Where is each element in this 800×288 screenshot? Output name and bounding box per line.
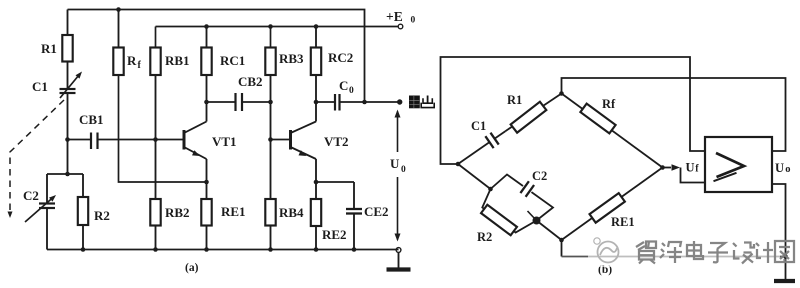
wire: VT1 emitter: [206, 159, 208, 199]
junction: VT2 emitter node: [314, 180, 319, 185]
wire: VT2 collector: [315, 102, 317, 122]
wire: VT2 emitter: [315, 159, 317, 199]
watermark char 泽: [660, 242, 682, 263]
svg-text:C2: C2: [23, 188, 39, 203]
wire: bridge left node to op-amp input loop: [441, 57, 706, 164]
wire: VT1 collector: [206, 102, 208, 122]
resistor RB1: [155, 27, 157, 48]
node: bridge bottom node: [559, 238, 564, 243]
junction: RB2 to ground bus: [153, 247, 158, 252]
svg-text:RE2: RE2: [322, 227, 347, 242]
wire: base line VT2: [271, 139, 291, 141]
transistor VT1: [183, 130, 186, 150]
capacitor C0: [316, 101, 335, 103]
ground symbol (b): [785, 257, 787, 280]
svg-text:RB4: RB4: [279, 205, 304, 220]
junction: RB4 to ground bus: [268, 247, 273, 252]
measurement arrow U0 (a): [397, 112, 399, 153]
junction: base node VT1: [153, 137, 158, 142]
svg-text:RB1: RB1: [165, 53, 190, 68]
junction: Rf tap on top bus: [116, 7, 121, 12]
capacitor CE2: [316, 181, 354, 183]
junction: CE2 to ground bus: [352, 247, 357, 252]
svg-text:R1: R1: [507, 93, 522, 107]
resistor RC2: [315, 27, 317, 48]
junction: tank lower-right (variable tap): [528, 211, 537, 220]
svg-text:RB3: RB3: [279, 51, 304, 66]
resistor R1 (b): [505, 94, 561, 132]
wire: output feedback top bus (a): [68, 10, 365, 103]
svg-text:0: 0: [401, 165, 406, 175]
svg-text:RC2: RC2: [328, 50, 353, 65]
junction: base node VT2: [268, 137, 273, 142]
resistor R2 (b): [481, 205, 517, 236]
junction: feedback bus joins output line: [362, 100, 367, 105]
op-amp U1 (amplifier box): [705, 137, 772, 192]
svg-text:CE2: CE2: [364, 204, 389, 219]
junction: VT1 collector node: [204, 100, 209, 105]
junction: tank upper-left: [488, 187, 493, 192]
resistor Rf (b): [562, 94, 663, 168]
svg-text:U: U: [390, 156, 400, 171]
node: bridge top node: [559, 91, 564, 96]
svg-text:CB2: CB2: [238, 74, 263, 89]
svg-text:R1: R1: [41, 41, 57, 56]
svg-text:RC1: RC1: [220, 53, 245, 68]
junction: base coupling tap: [65, 137, 70, 142]
resistor RE1: [201, 199, 211, 226]
watermark char 贸: [636, 242, 656, 264]
svg-text:0: 0: [411, 16, 416, 26]
watermark char 计: [756, 242, 773, 263]
resistor RC1: [206, 27, 208, 48]
resistor RB3: [270, 27, 272, 48]
svg-text:R2: R2: [477, 230, 492, 244]
svg-text:o: o: [785, 164, 790, 175]
svg-text:(a): (a): [185, 262, 199, 274]
svg-text:R2: R2: [94, 208, 110, 223]
resistor RB2: [155, 140, 157, 200]
wire: RB3 to VT2 base node: [270, 102, 272, 140]
wire: op-amp output to bridge top node: [562, 78, 786, 151]
terminal: +E0 supply: [398, 24, 403, 29]
wire: base line VT1: [98, 139, 185, 141]
junction: VT2 collector node: [314, 100, 319, 105]
svg-text:C: C: [339, 78, 348, 93]
svg-text:RE1: RE1: [221, 204, 246, 219]
ground symbol (a): [396, 248, 401, 253]
terminal: output (a): [397, 99, 402, 104]
wire: op-amp output down to ground: [772, 184, 786, 257]
junction: Rf joins emitter node: [204, 180, 209, 185]
watermark char 子: [708, 243, 728, 262]
node: bridge right node: [660, 165, 665, 170]
resistor RE1 (b): [562, 168, 663, 241]
svg-text:RE1: RE1: [611, 215, 635, 229]
junction: RB3 on supply rail: [268, 24, 273, 29]
svg-text:f: f: [138, 60, 142, 71]
resistor R1: [67, 10, 69, 36]
gang line (dashed) linking C1/C2: [10, 100, 64, 212]
wire: bridge bottom return: [561, 240, 563, 257]
wire: tank to bottom node: [537, 221, 562, 241]
svg-text:C1: C1: [32, 79, 48, 94]
transistor VT2: [289, 130, 292, 150]
svg-text:C1: C1: [471, 119, 486, 133]
watermark char 圈: [775, 241, 794, 262]
watermark backdrop: [588, 236, 780, 267]
junction: R2 to ground bus: [81, 247, 86, 252]
watermark logo circle: [594, 238, 619, 263]
parallel tank R2 / C2 (b): [482, 175, 553, 233]
label 输出 (output): [409, 96, 434, 109]
svg-text:+E: +E: [386, 9, 403, 24]
wire: ground bus (a): [47, 249, 399, 251]
junction: CB2 to RB3 column: [268, 100, 273, 105]
wire: left node into R2C2 tank: [458, 164, 491, 189]
wire: Uf input from bridge right node: [663, 167, 672, 169]
svg-text:VT2: VT2: [324, 134, 349, 149]
node: bridge left node: [456, 162, 461, 167]
capacitor C2 (variable) with R2 parallel tank: [47, 173, 83, 175]
resistor RB4: [270, 140, 272, 200]
junction: output meets bottom wire: [783, 254, 788, 259]
svg-text:0: 0: [349, 86, 354, 96]
svg-text:VT1: VT1: [212, 134, 237, 149]
svg-text:Rf: Rf: [602, 97, 616, 111]
resistor RE2: [311, 199, 321, 226]
junction: RC1 on supply rail: [204, 24, 209, 29]
svg-text:C2: C2: [532, 169, 547, 183]
svg-text:RB2: RB2: [165, 205, 190, 220]
junction: top of R2C2 tank: [65, 172, 70, 177]
wire: Rf to VT1 emitter: [119, 75, 207, 182]
resistor R2: [82, 174, 84, 197]
capacitor C1 (b) in series branch: [458, 142, 490, 164]
watermark char 电: [687, 241, 703, 259]
capacitor C1 (variable): [60, 88, 76, 90]
junction: RE1 to ground bus: [204, 247, 209, 252]
wire: RB1 to base node: [155, 75, 157, 140]
svg-text:CB1: CB1: [79, 112, 104, 127]
watermark char 设: [733, 243, 754, 264]
svg-text:U: U: [686, 161, 695, 175]
wire: C1 down to Wien RC node: [67, 93, 69, 174]
junction: RC2 on supply rail: [314, 24, 319, 29]
svg-text:R: R: [127, 53, 137, 68]
resistor Rf: [118, 10, 120, 48]
svg-text:f: f: [695, 164, 699, 175]
capacitor CB1: [68, 139, 92, 141]
svg-text:U: U: [775, 161, 784, 175]
wire: +E supply rail (a): [156, 26, 399, 28]
junction: RE2 to ground bus: [314, 247, 319, 252]
capacitor CB2: [207, 101, 236, 103]
